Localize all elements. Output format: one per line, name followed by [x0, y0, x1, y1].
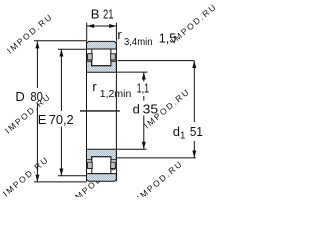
- svg-text:1,1: 1,1: [137, 81, 150, 96]
- svg-text:r: r: [92, 79, 97, 94]
- svg-text:1,5: 1,5: [159, 31, 177, 46]
- svg-text:1: 1: [180, 131, 185, 142]
- svg-text:35: 35: [143, 102, 159, 117]
- svg-text:B: B: [91, 7, 100, 22]
- svg-text:d: d: [133, 102, 140, 117]
- svg-text:1,2min: 1,2min: [100, 89, 132, 100]
- svg-text:E: E: [38, 112, 47, 127]
- svg-text:51: 51: [190, 124, 203, 139]
- svg-text:d: d: [173, 124, 180, 139]
- svg-text:80: 80: [30, 89, 43, 104]
- svg-text:21: 21: [103, 7, 114, 22]
- svg-text:D: D: [15, 89, 24, 104]
- svg-text:r: r: [117, 27, 122, 42]
- svg-text:70,2: 70,2: [49, 112, 74, 127]
- svg-text:3,4min: 3,4min: [124, 37, 153, 48]
